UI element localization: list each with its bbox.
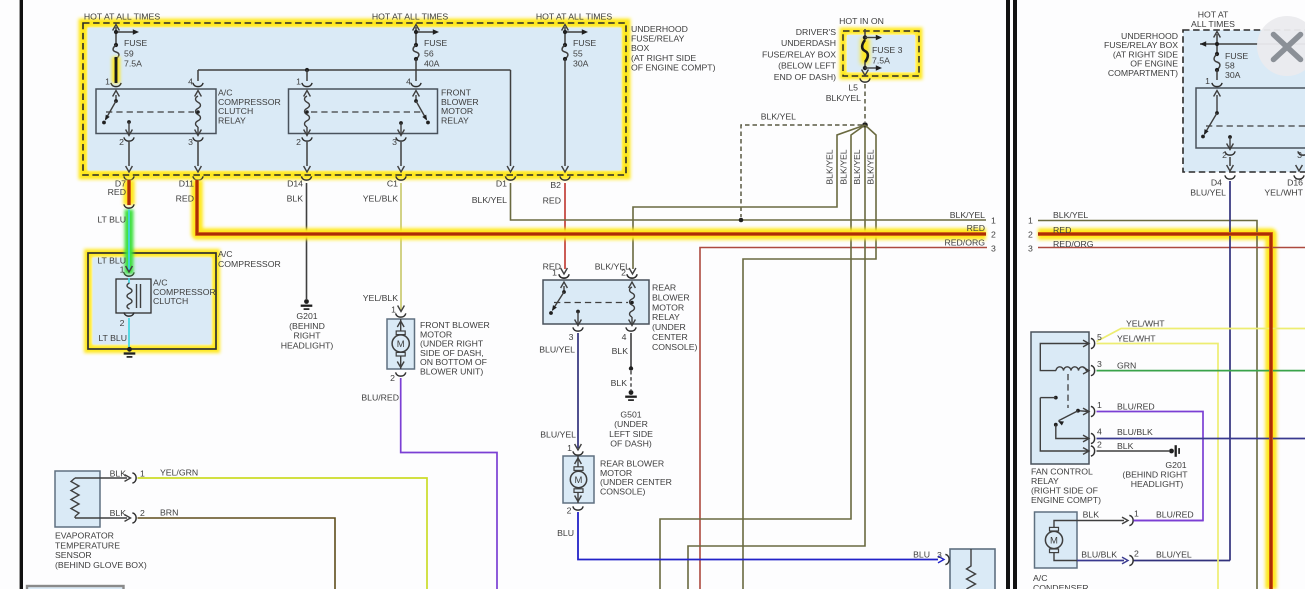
svg-text:UNDERHOOD: UNDERHOOD (631, 24, 688, 34)
svg-text:1: 1 (105, 77, 110, 87)
svg-text:RED: RED (176, 194, 194, 204)
svg-text:BLU/YEL: BLU/YEL (540, 430, 576, 440)
svg-text:7.5A: 7.5A (872, 56, 890, 66)
svg-text:D1: D1 (496, 179, 507, 189)
svg-text:BOX: BOX (631, 43, 650, 53)
svg-text:RELAY: RELAY (652, 312, 680, 322)
svg-text:BLOWER UNIT): BLOWER UNIT) (420, 367, 483, 377)
svg-text:HOT AT ALL TIMES: HOT AT ALL TIMES (536, 12, 612, 22)
svg-text:2: 2 (567, 506, 572, 516)
svg-text:FUSE: FUSE (424, 38, 447, 48)
svg-text:3: 3 (1028, 244, 1033, 254)
svg-text:BLK: BLK (1083, 510, 1100, 520)
svg-text:MOTOR: MOTOR (652, 302, 684, 312)
svg-text:58: 58 (1225, 61, 1235, 71)
svg-text:1: 1 (991, 216, 996, 226)
svg-text:YEL/WHT: YEL/WHT (1126, 319, 1165, 329)
svg-text:BLU/RED: BLU/RED (1117, 402, 1155, 412)
svg-text:BLU/YEL: BLU/YEL (1156, 550, 1192, 560)
svg-text:BLU: BLU (557, 528, 574, 538)
svg-text:(UNDER: (UNDER (652, 322, 686, 332)
svg-text:BLU/BLK: BLU/BLK (1117, 427, 1153, 437)
svg-text:RED: RED (1053, 225, 1071, 235)
svg-text:4: 4 (188, 77, 193, 87)
svg-text:BLK/YEL: BLK/YEL (826, 93, 861, 103)
svg-text:C1: C1 (387, 179, 398, 189)
svg-text:2: 2 (991, 230, 996, 240)
svg-text:YEL/WHT: YEL/WHT (1117, 334, 1156, 344)
svg-text:YEL/BLK: YEL/BLK (363, 194, 398, 204)
svg-text:RELAY: RELAY (218, 115, 246, 125)
svg-text:BLU/RED: BLU/RED (361, 393, 399, 403)
svg-text:FUSE: FUSE (1225, 51, 1248, 61)
svg-text:TEMPERATURE: TEMPERATURE (55, 540, 120, 550)
svg-text:BLU: BLU (913, 550, 930, 560)
svg-text:EVAPORATOR: EVAPORATOR (55, 531, 114, 541)
svg-text:(BEHIND: (BEHIND (289, 321, 325, 331)
svg-text:3: 3 (1297, 150, 1302, 160)
svg-text:2: 2 (1222, 150, 1227, 160)
svg-text:D4: D4 (1211, 178, 1222, 188)
svg-text:HOT AT: HOT AT (1198, 10, 1229, 20)
svg-text:2: 2 (390, 373, 395, 383)
svg-text:1: 1 (1028, 216, 1033, 226)
svg-text:REAR: REAR (652, 283, 676, 293)
svg-text:BLK/YEL: BLK/YEL (761, 112, 796, 122)
svg-text:2: 2 (621, 268, 626, 278)
svg-text:COMPARTMENT): COMPARTMENT) (1108, 68, 1178, 78)
svg-text:RED/ORG: RED/ORG (944, 238, 985, 248)
svg-text:DRIVER'S: DRIVER'S (796, 27, 836, 37)
svg-text:BLK: BLK (1117, 441, 1134, 451)
svg-text:M: M (397, 339, 405, 350)
svg-text:1: 1 (552, 268, 557, 278)
svg-text:CENTER: CENTER (652, 332, 688, 342)
svg-text:FUSE/RELAY BOX: FUSE/RELAY BOX (762, 49, 836, 59)
svg-text:FUSE: FUSE (124, 38, 147, 48)
svg-text:BLU/YEL: BLU/YEL (539, 345, 575, 355)
svg-text:BLK: BLK (611, 378, 628, 388)
svg-text:LT BLU: LT BLU (98, 333, 127, 343)
svg-text:D11: D11 (179, 179, 194, 189)
svg-text:BLK: BLK (612, 346, 629, 356)
svg-text:(AT RIGHT SIDE: (AT RIGHT SIDE (631, 53, 696, 63)
svg-text:ALL TIMES: ALL TIMES (1191, 19, 1235, 29)
svg-text:FUSE 3: FUSE 3 (872, 45, 903, 55)
svg-text:5: 5 (1097, 332, 1102, 342)
svg-text:B2: B2 (550, 180, 561, 190)
svg-text:END OF DASH): END OF DASH) (774, 72, 836, 82)
svg-text:OF DASH): OF DASH) (610, 439, 652, 449)
svg-text:BLU/YEL: BLU/YEL (1190, 188, 1226, 198)
svg-text:3: 3 (392, 137, 397, 147)
svg-text:L5: L5 (848, 83, 858, 93)
svg-text:SENSOR: SENSOR (55, 550, 92, 560)
svg-text:4: 4 (1097, 427, 1102, 437)
svg-text:(UNDER: (UNDER (614, 419, 648, 429)
svg-text:YEL/BLK: YEL/BLK (363, 293, 398, 303)
svg-text:3: 3 (1097, 359, 1102, 369)
svg-text:4: 4 (406, 77, 411, 87)
svg-text:G201: G201 (296, 311, 317, 321)
svg-text:BLK/YEL: BLK/YEL (472, 195, 507, 205)
svg-text:BLK: BLK (110, 469, 127, 479)
svg-text:1: 1 (296, 77, 301, 87)
svg-text:UNDERDASH: UNDERDASH (781, 38, 836, 48)
svg-text:RELAY: RELAY (1031, 476, 1059, 486)
svg-text:3: 3 (569, 332, 574, 342)
svg-text:2: 2 (1097, 440, 1102, 450)
svg-text:LEFT SIDE: LEFT SIDE (609, 429, 653, 439)
svg-text:RED: RED (967, 223, 985, 233)
svg-text:BLK/YEL: BLK/YEL (839, 149, 849, 184)
svg-text:RELAY: RELAY (441, 115, 469, 125)
svg-text:BLK/YEL: BLK/YEL (852, 149, 862, 184)
svg-text:HOT AT ALL TIMES: HOT AT ALL TIMES (372, 12, 448, 22)
svg-text:A/C: A/C (218, 249, 232, 259)
svg-text:2: 2 (120, 318, 125, 328)
svg-text:BLK/YEL: BLK/YEL (1053, 210, 1088, 220)
svg-text:D16: D16 (1287, 178, 1303, 188)
svg-text:2: 2 (119, 137, 124, 147)
svg-text:HEADLIGHT): HEADLIGHT) (281, 340, 334, 350)
svg-text:COMPRESSOR: COMPRESSOR (218, 259, 281, 269)
svg-text:RED: RED (543, 196, 561, 206)
svg-text:40A: 40A (424, 59, 440, 69)
svg-text:(RIGHT SIDE OF: (RIGHT SIDE OF (1031, 486, 1098, 496)
svg-text:ENGINE COMPT): ENGINE COMPT) (1031, 495, 1101, 505)
svg-text:YEL/GRN: YEL/GRN (160, 468, 198, 478)
svg-text:56: 56 (424, 48, 434, 58)
svg-text:RED: RED (108, 187, 126, 197)
svg-text:BLK: BLK (110, 508, 127, 518)
svg-text:CLUTCH: CLUTCH (153, 296, 188, 306)
svg-text:3: 3 (188, 137, 193, 147)
svg-text:BLOWER: BLOWER (652, 292, 690, 302)
svg-text:BLK/YEL: BLK/YEL (950, 210, 985, 220)
svg-text:FAN CONTROL: FAN CONTROL (1031, 467, 1093, 477)
svg-text:HOT IN ON: HOT IN ON (839, 16, 884, 26)
svg-text:2: 2 (140, 508, 145, 518)
svg-text:BLK: BLK (287, 194, 304, 204)
svg-text:YEL/WHT: YEL/WHT (1264, 188, 1303, 198)
svg-text:BLK/YEL: BLK/YEL (825, 149, 835, 184)
svg-text:BLK/YEL: BLK/YEL (866, 149, 876, 184)
svg-text:7.5A: 7.5A (124, 59, 142, 69)
svg-text:55: 55 (573, 48, 583, 58)
svg-text:1: 1 (567, 443, 572, 453)
svg-text:(BEHIND RIGHT: (BEHIND RIGHT (1122, 470, 1188, 480)
svg-text:1: 1 (391, 305, 396, 315)
svg-text:1: 1 (140, 469, 145, 479)
svg-text:A/C: A/C (1033, 573, 1047, 583)
svg-text:G201: G201 (1165, 460, 1186, 470)
svg-text:1: 1 (1134, 509, 1139, 519)
svg-text:3: 3 (991, 244, 996, 254)
svg-text:G501: G501 (620, 410, 641, 420)
svg-text:GRN: GRN (1117, 361, 1136, 371)
svg-text:CONDENSER: CONDENSER (1033, 583, 1089, 589)
svg-text:30A: 30A (573, 59, 589, 69)
svg-text:LT BLU: LT BLU (97, 215, 126, 225)
svg-text:M: M (575, 475, 583, 486)
svg-text:CONSOLE): CONSOLE) (652, 342, 697, 352)
svg-text:HEADLIGHT): HEADLIGHT) (1131, 479, 1184, 489)
svg-text:59: 59 (124, 48, 134, 58)
svg-text:BRN: BRN (160, 508, 178, 518)
svg-text:1: 1 (1097, 400, 1102, 410)
svg-text:(BEHIND GLOVE BOX): (BEHIND GLOVE BOX) (55, 560, 147, 570)
svg-text:30A: 30A (1225, 70, 1241, 80)
svg-text:3: 3 (937, 550, 942, 560)
svg-text:4: 4 (622, 332, 627, 342)
svg-text:RED/ORG: RED/ORG (1053, 239, 1094, 249)
svg-text:OF ENGINE COMPT): OF ENGINE COMPT) (631, 62, 716, 72)
svg-text:BLU/BLK: BLU/BLK (1081, 550, 1117, 560)
svg-text:1: 1 (120, 265, 125, 275)
svg-text:CONSOLE): CONSOLE) (600, 486, 645, 496)
svg-text:2: 2 (1134, 549, 1139, 559)
svg-text:1: 1 (1205, 76, 1210, 86)
svg-text:FUSE/RELAY: FUSE/RELAY (631, 34, 685, 44)
svg-text:FUSE: FUSE (573, 38, 596, 48)
svg-text:HOT AT ALL TIMES: HOT AT ALL TIMES (84, 12, 160, 22)
svg-text:BLU/RED: BLU/RED (1156, 510, 1194, 520)
svg-text:2: 2 (296, 137, 301, 147)
svg-text:(BELOW LEFT: (BELOW LEFT (778, 61, 837, 71)
svg-text:D14: D14 (287, 179, 303, 189)
svg-text:M: M (1050, 536, 1058, 547)
svg-text:2: 2 (1028, 230, 1033, 240)
svg-text:RIGHT: RIGHT (293, 331, 321, 341)
